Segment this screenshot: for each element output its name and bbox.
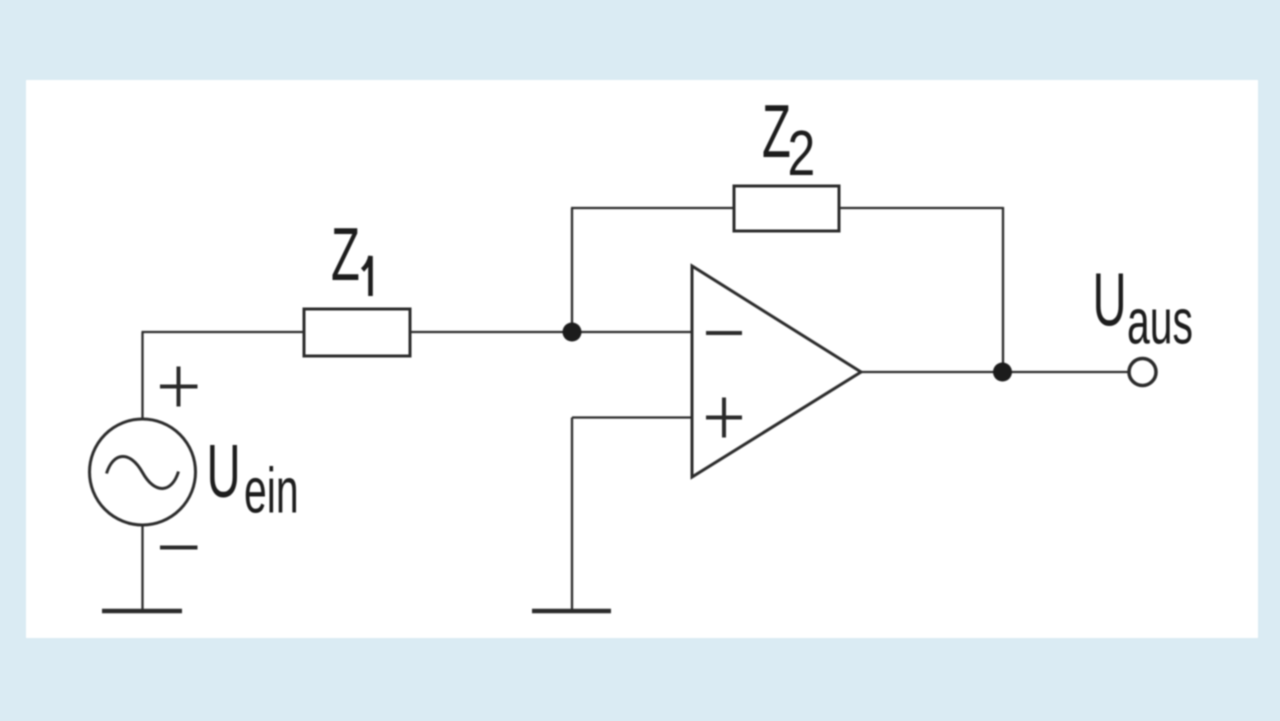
wire: feedback top right segment from Z2 xyxy=(839,207,1003,209)
svg-text:Z: Z xyxy=(331,213,360,297)
wire: non-inverting vertical down to ground xyxy=(571,418,573,612)
wire: feedback vertical from node up xyxy=(571,208,573,332)
wire: source top lead xyxy=(141,332,143,419)
AC voltage source circle xyxy=(90,419,196,525)
wire: non-inverting input horizontal xyxy=(572,416,692,418)
label Z1 xyxy=(331,213,371,297)
op-amp U1 triangle xyxy=(692,266,861,477)
ground GND2 under non-inverting input xyxy=(532,609,611,614)
wire: Z1 to inverting-input node xyxy=(410,331,692,333)
minus polarity sign below source xyxy=(160,546,198,550)
ground GND1 under source xyxy=(102,609,182,614)
wire: input wire from source corner to Z1 xyxy=(142,331,305,333)
op-amp non-inverting input plus sign xyxy=(706,398,742,438)
impedance Z2 body xyxy=(734,186,839,231)
op-amp inverting input minus sign xyxy=(706,331,742,335)
output terminal open circle xyxy=(1129,359,1156,386)
wire: source bottom lead xyxy=(141,525,143,611)
junction node at output xyxy=(993,363,1012,382)
svg-text:aus: aus xyxy=(1127,286,1193,357)
junction node at inverting input xyxy=(563,323,582,342)
label Z2 xyxy=(762,90,815,190)
label Uein xyxy=(207,430,299,527)
svg-text:2: 2 xyxy=(788,118,816,189)
svg-text:U: U xyxy=(207,430,241,514)
svg-text:U: U xyxy=(1093,258,1127,342)
sine symbol inside source xyxy=(107,456,179,488)
label Uaus xyxy=(1093,258,1194,357)
wire: op-amp output to terminal xyxy=(861,371,1129,373)
svg-text:ein: ein xyxy=(244,455,299,526)
wire: feedback right vertical down to output xyxy=(1002,207,1004,372)
impedance Z1 body xyxy=(304,309,410,356)
wire: feedback top left segment to Z2 xyxy=(571,207,734,209)
plus polarity sign above source xyxy=(160,367,198,407)
svg-text:Z: Z xyxy=(762,90,791,174)
